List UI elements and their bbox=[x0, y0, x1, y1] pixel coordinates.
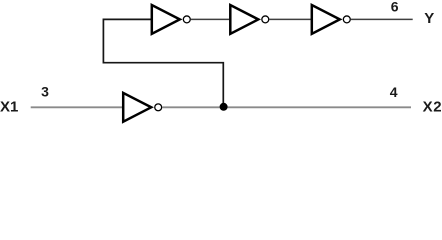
inverter U1 bbox=[152, 5, 190, 34]
wire U1 output to U2 input bbox=[191, 18, 229, 20]
wire U2 output to U3 input bbox=[269, 18, 310, 20]
inverter U4 bbox=[123, 93, 161, 122]
wire feedback path from node to top chain input bbox=[103, 19, 223, 107]
svg-text:Y: Y bbox=[424, 10, 434, 27]
inverter U3 bbox=[312, 5, 350, 34]
node junction dot bbox=[220, 103, 228, 111]
inverter U2 bbox=[230, 5, 268, 34]
wire U3 output to Y bbox=[351, 18, 413, 20]
svg-text:4: 4 bbox=[390, 84, 398, 100]
svg-text:X1: X1 bbox=[0, 99, 18, 116]
wire X1 to U4 input bbox=[31, 106, 122, 108]
svg-text:3: 3 bbox=[41, 84, 49, 100]
wire U4 output to X2 bbox=[162, 106, 411, 108]
svg-text:X2: X2 bbox=[423, 99, 442, 116]
svg-text:6: 6 bbox=[391, 0, 399, 15]
